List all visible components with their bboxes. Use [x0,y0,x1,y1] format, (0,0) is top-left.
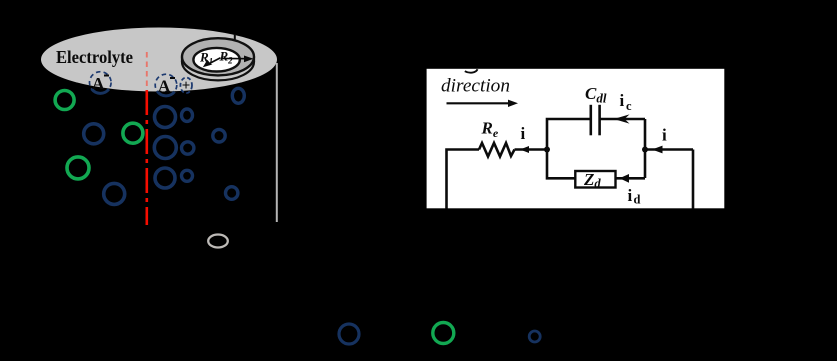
ring electrode inner hole [193,48,239,72]
navy ion small c1 [182,109,193,121]
navy ion small e1 [213,129,225,142]
svg-text:i: i [628,186,633,205]
legend navy ion [339,324,359,344]
node A [544,147,550,153]
resistor Re [479,143,515,157]
direction arrow [447,102,511,104]
electrolyte surface ellipse [41,28,277,92]
anion A- ion 2 (dashed) [155,74,177,96]
white bubble ellipse [208,235,228,248]
wire resistor to node A with arrow i [515,148,548,151]
green ion G3 [67,157,89,179]
svg-text:d: d [634,193,641,207]
equivalent-circuit white panel [427,69,725,209]
legend green ion [433,323,454,344]
wire right vertical [692,150,695,209]
ring electrode side edges [181,57,183,62]
wire Zd to node B with arrow id [616,177,646,180]
wire capacitor to node B with arrow ic [600,118,645,121]
bottom branch wire [547,150,576,179]
navy ion N4 [154,137,176,159]
svg-text:+: + [182,78,191,94]
wire left vertical [447,150,480,209]
R1 radius arrow [208,58,221,65]
svg-text:i: i [620,91,625,110]
diffusion impedance Zd box [575,171,615,188]
navy ion N3 [155,107,176,128]
svg-text:i: i [662,126,667,145]
cylinder right wall line [276,63,278,222]
navy ion small c2 [182,142,194,154]
red centerline (lower) [146,90,149,225]
svg-text:A: A [92,74,105,93]
node B [642,147,648,153]
ring electrode pointer tick [234,34,236,42]
ring electrode top annulus [182,38,254,75]
wire right with arrow i [645,148,693,151]
navy ion N2 [104,183,125,204]
svg-text:A: A [158,77,171,96]
ring electrode bottom ellipse (side) [182,43,254,80]
cation + ion (dashed) [180,78,192,94]
navy ion small c3 [182,170,193,181]
svg-text:i: i [521,124,526,143]
red centerline (upper pink part over gray) [146,52,148,90]
cropped letter tail above direction [465,69,478,73]
green ion G1 [55,91,74,110]
navy ion N6 [232,88,244,103]
svg-text:Electrolyte: Electrolyte [56,47,133,67]
capacitor Cdl [589,105,592,136]
svg-text:c: c [626,99,632,113]
svg-text:direction: direction [441,76,510,97]
parallel loop wires [547,119,591,150]
R2 radius arrow [221,57,247,59]
legend small navy ion [529,331,540,342]
navy ion N1 [84,124,104,144]
anion A- ion 1 (dashed) [90,72,112,94]
green ion G2 [123,123,143,143]
navy ion N5 [155,168,175,188]
wire node B vertical top [644,119,647,178]
navy ion small e2 [226,187,238,200]
